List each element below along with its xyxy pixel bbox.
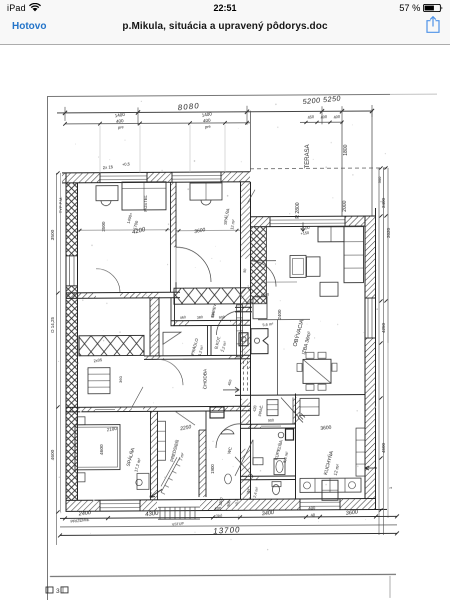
svg-text:80: 80 <box>243 268 248 273</box>
svg-text:3600: 3600 <box>194 227 206 235</box>
svg-text:4600: 4600 <box>99 444 105 455</box>
svg-text:1400: 1400 <box>201 111 212 117</box>
svg-text:2100: 2100 <box>106 426 117 432</box>
svg-text:900: 900 <box>268 418 274 423</box>
svg-text:WC: WC <box>226 446 233 454</box>
svg-text:O 14,25: O 14,25 <box>50 316 55 333</box>
svg-text:2020: 2020 <box>386 227 391 238</box>
svg-text:1400: 1400 <box>114 112 125 118</box>
svg-text:3500: 3500 <box>50 229 56 240</box>
svg-text:CHODBA: CHODBA <box>203 368 209 389</box>
svg-text:8080: 8080 <box>177 101 200 112</box>
svg-text:pre: pre <box>118 124 125 130</box>
svg-text:2400: 2400 <box>381 197 386 208</box>
svg-text:1: 1 <box>388 486 393 489</box>
svg-text:900: 900 <box>219 315 225 320</box>
svg-text:B.KOT.: B.KOT. <box>213 336 221 350</box>
svg-text:OHREV: OHREV <box>211 303 217 317</box>
svg-text:2,4 m²: 2,4 m² <box>253 486 260 498</box>
svg-text:4250: 4250 <box>381 322 386 333</box>
svg-text:300: 300 <box>377 176 382 183</box>
svg-text:450: 450 <box>307 114 315 120</box>
svg-text:2x 15: 2x 15 <box>103 164 114 170</box>
svg-text:2400: 2400 <box>277 309 282 320</box>
svg-text:+150: +150 <box>300 231 309 236</box>
svg-text:SPÁLŇA: SPÁLŇA <box>223 208 231 225</box>
svg-text:2250: 2250 <box>179 424 192 432</box>
svg-text:7 m²: 7 m² <box>178 452 185 462</box>
svg-text:13700: 13700 <box>213 525 241 536</box>
svg-text:4600: 4600 <box>50 449 56 460</box>
svg-text:PRAČ.: PRAČ. <box>257 404 264 416</box>
svg-text:1900: 1900 <box>210 464 215 474</box>
svg-text:400: 400 <box>333 114 341 120</box>
svg-text:+0,5: +0,5 <box>122 161 131 167</box>
svg-text:450: 450 <box>227 379 232 386</box>
svg-text:1400+: 1400+ <box>126 211 134 224</box>
svg-text:2,2 m²: 2,2 m² <box>221 340 228 352</box>
svg-text:400: 400 <box>203 117 212 123</box>
svg-text:IZBA 36m²: IZBA 36m² <box>301 331 313 356</box>
svg-text:POSTEĽ: POSTEĽ <box>143 194 148 211</box>
svg-text:pre: pre <box>205 124 212 130</box>
svg-text:3400: 3400 <box>261 510 275 517</box>
svg-text:12 m²: 12 m² <box>333 463 341 476</box>
svg-text:5200 5250: 5200 5250 <box>302 94 341 107</box>
svg-text:4500: 4500 <box>381 442 386 453</box>
svg-text:3600: 3600 <box>320 425 332 432</box>
svg-text:5,6 m²: 5,6 m² <box>282 450 290 463</box>
svg-text:2000: 2000 <box>342 200 348 211</box>
svg-text:400: 400 <box>116 118 125 124</box>
svg-text:40: 40 <box>310 512 316 518</box>
svg-text:TYP P.M.: TYP P.M. <box>58 197 63 214</box>
svg-text:TERASA: TERASA <box>305 144 311 168</box>
svg-text:400: 400 <box>320 114 328 120</box>
svg-text:3: 3 <box>56 588 60 595</box>
svg-text:4300: 4300 <box>145 511 160 519</box>
svg-text:460: 460 <box>180 315 186 320</box>
svg-text:1800: 1800 <box>343 144 349 155</box>
svg-text:3600: 3600 <box>345 509 359 516</box>
svg-text:360: 360 <box>118 375 123 382</box>
svg-text:12 m²: 12 m² <box>229 218 236 230</box>
svg-text:(4x): (4x) <box>215 513 223 519</box>
svg-text:17,2 m²: 17,2 m² <box>133 457 142 473</box>
svg-text:4,2 m²: 4,2 m² <box>198 344 205 356</box>
svg-text:420: 420 <box>252 405 257 412</box>
svg-text:2x05: 2x05 <box>93 357 103 363</box>
svg-text:380: 380 <box>197 315 203 320</box>
svg-text:400: 400 <box>308 505 316 511</box>
svg-text:5,6 m²: 5,6 m² <box>262 322 274 327</box>
svg-text:PRIZEMIE: PRIZEMIE <box>70 517 90 524</box>
